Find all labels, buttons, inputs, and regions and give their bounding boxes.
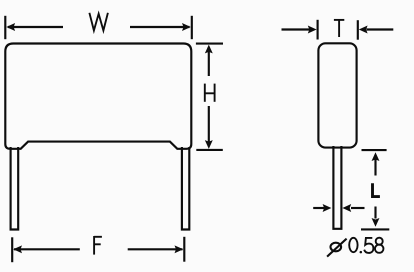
W dimension left tick xyxy=(4,16,6,39)
lead diameter leader right line xyxy=(351,207,365,209)
L up arrowhead xyxy=(372,152,380,161)
T left arrowhead xyxy=(308,26,317,34)
label H xyxy=(205,84,215,102)
T dimension left line xyxy=(282,28,310,30)
T right arrowhead xyxy=(359,26,368,34)
label W xyxy=(89,13,108,31)
W dimension left line xyxy=(8,26,63,28)
F dimension left tick xyxy=(11,237,13,262)
T dimension left tick xyxy=(317,20,319,40)
H up arrowhead xyxy=(205,45,213,54)
H dimension line upper xyxy=(208,47,210,76)
label F xyxy=(94,236,102,255)
W left arrowhead xyxy=(6,23,15,31)
side lead xyxy=(333,146,341,229)
F left arrowhead xyxy=(13,245,22,253)
W dimension right tick xyxy=(191,16,193,39)
H dimension line lower xyxy=(208,106,210,147)
label 0.58 xyxy=(349,238,383,254)
L dimension bottom extension line xyxy=(361,228,389,230)
L dimension line upper xyxy=(374,160,376,176)
W dimension right line xyxy=(130,26,190,28)
label L xyxy=(373,183,380,196)
L down arrowhead xyxy=(372,218,380,227)
front left lead xyxy=(11,147,19,230)
diameter symbol xyxy=(327,239,347,257)
H dimension top extension line xyxy=(196,43,223,45)
L dimension top extension line xyxy=(362,149,387,151)
H down arrowhead xyxy=(205,140,213,149)
F right arrowhead xyxy=(175,245,184,253)
diameter right arrowhead xyxy=(342,204,351,212)
diameter left arrowhead xyxy=(323,204,332,212)
W right arrowhead xyxy=(182,23,191,31)
T dimension right tick xyxy=(357,20,359,40)
label T xyxy=(334,20,344,37)
lead diameter leader left line xyxy=(313,207,324,209)
F dimension left line xyxy=(14,248,80,250)
F dimension right line xyxy=(128,248,183,250)
T dimension right line xyxy=(367,28,394,30)
H dimension bottom extension line xyxy=(196,149,223,151)
capacitor body front view xyxy=(5,44,191,149)
F dimension right tick xyxy=(183,237,185,262)
capacitor body side view xyxy=(318,43,356,147)
L dimension line lower xyxy=(374,207,376,219)
front right lead xyxy=(182,147,189,230)
